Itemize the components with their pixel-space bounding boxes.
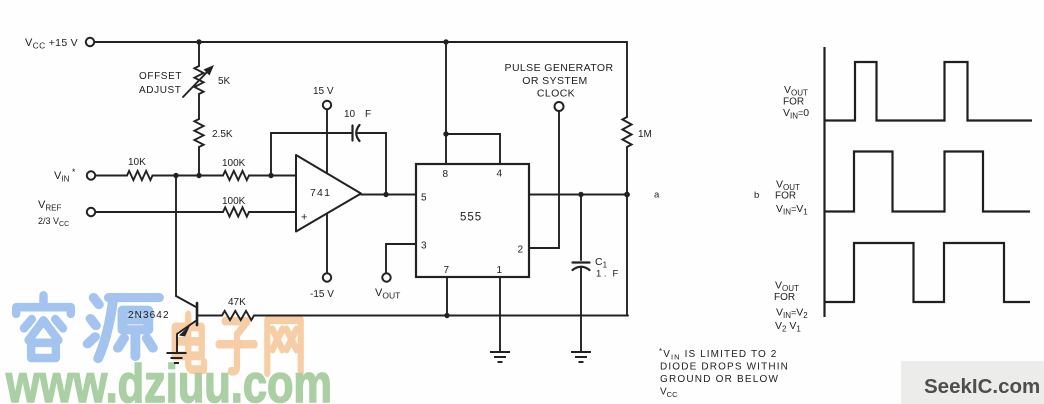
wire 10K to 100K [153, 175, 224, 177]
svg-text:741: 741 [310, 187, 331, 199]
wire node to C1 [580, 195, 582, 261]
terminal +15V [323, 101, 331, 109]
svg-text:7: 7 [444, 265, 450, 276]
node C1 tap [578, 192, 583, 197]
svg-text:10K: 10K [128, 157, 146, 168]
svg-text:1: 1 [497, 265, 503, 276]
waveform VOUT for VIN=V1 [825, 152, 1031, 212]
svg-text:1M: 1M [638, 129, 652, 140]
resistor 100K input [223, 171, 249, 180]
waveform VOUT for VIN=0 [825, 62, 1033, 121]
node feedback tap [268, 173, 273, 178]
node pin7 junction [444, 313, 449, 318]
svg-text:GROUND OR BELOW: GROUND OR BELOW [660, 374, 779, 385]
watermark char 5 [267, 320, 300, 373]
wire pin1 down [499, 277, 501, 351]
resistor 2.5K [194, 119, 203, 147]
svg-text:PULSE GENERATOR: PULSE GENERATOR [505, 62, 614, 74]
svg-text:47K: 47K [228, 297, 246, 308]
wire pin7 down [446, 277, 448, 316]
svg-text:F: F [365, 109, 371, 120]
resistor 47K [222, 311, 254, 320]
wire feedback right [358, 133, 386, 195]
terminal pulse generator [555, 102, 564, 111]
wire 555 right to node a [529, 194, 627, 196]
watermark char 3 [175, 315, 204, 370]
svg-text:100K: 100K [222, 158, 246, 169]
svg-text:5: 5 [421, 193, 427, 204]
waveform axis [823, 47, 825, 317]
wire pin3 to VOUT [386, 244, 416, 273]
svg-text:8: 8 [443, 169, 449, 180]
svg-text:15 V: 15 V [313, 86, 334, 97]
pot arrow [183, 69, 210, 97]
svg-text:OFFSET: OFFSET [139, 71, 182, 82]
svg-text:a: a [654, 190, 660, 201]
svg-text:FOR: FOR [774, 292, 795, 303]
wire 47K to output node column [254, 315, 628, 317]
pot arrowhead [204, 65, 215, 76]
svg-text:5K: 5K [218, 76, 231, 87]
svg-text:-15 V: -15 V [310, 289, 334, 300]
svg-text:ADJUST: ADJUST [139, 85, 182, 96]
wire pin4 up and over [446, 42, 500, 164]
wire base to 47K [197, 315, 222, 317]
wire feedback up [271, 133, 352, 176]
wire 2.5K to VIN node [198, 147, 200, 176]
wire pulse gen to pin 2 [529, 111, 559, 248]
node pin8/4 junction [443, 131, 448, 136]
wire 1M to node a [626, 147, 628, 195]
node junction top 5K [196, 39, 201, 44]
watermark char 4 [219, 321, 255, 371]
wire +15V to opamp [326, 110, 328, 173]
wire C1 to ground [580, 267, 582, 351]
watermark SeekIC [901, 361, 1044, 404]
svg-text:3: 3 [421, 241, 427, 252]
svg-text:2.5K: 2.5K [212, 129, 233, 140]
watermark char 1 [16, 295, 71, 358]
transistor emitter arrowhead [179, 325, 191, 337]
wire VIN node to transistor collector [175, 176, 177, 297]
IC U2 555 [416, 164, 529, 277]
node VIN/2.5K junction [196, 173, 201, 178]
wire opamp output to 555 pin 5 [361, 194, 416, 196]
svg-text:b: b [754, 190, 759, 201]
wire VREF terminal to 100K [96, 211, 224, 213]
svg-text:CLOCK: CLOCK [537, 88, 575, 100]
node a junction [624, 192, 630, 198]
svg-text:10: 10 [344, 109, 356, 120]
wire 5K to 2.5K [198, 94, 200, 119]
svg-text:+: + [301, 212, 307, 224]
svg-text:1 .: 1 . [596, 269, 607, 280]
svg-text:SeekIC.com: SeekIC.com [924, 375, 1040, 398]
wire pin8 up [445, 134, 447, 164]
transistor 2N3642 base bar [196, 303, 199, 325]
wire rail down to 1M [626, 42, 628, 117]
ground below pin1 [490, 352, 510, 362]
node VIN/collector junction [173, 173, 178, 178]
watermark char 2 [88, 298, 159, 359]
svg-text:2N3642: 2N3642 [128, 310, 170, 321]
terminal VREF [87, 208, 95, 216]
svg-text:555: 555 [460, 212, 482, 224]
svg-text:4: 4 [497, 169, 503, 180]
svg-text:OR SYSTEM: OR SYSTEM [522, 75, 587, 87]
wire 100K to opamp inverting input [249, 175, 296, 177]
svg-text:2: 2 [518, 245, 524, 256]
capacitor C1 plates [573, 261, 590, 263]
svg-text:F: F [613, 269, 619, 280]
wire VCC rail [95, 41, 628, 43]
node opamp output [383, 192, 388, 197]
wire 100K to opamp noninverting input [249, 211, 296, 213]
resistor 100K ref [223, 207, 249, 216]
node junction top 555 supply [443, 39, 448, 44]
capacitor 10uF plates [351, 126, 353, 141]
wire VIN terminal to 10K [96, 175, 128, 177]
resistor 1M [622, 117, 631, 147]
terminal VCC [86, 38, 94, 46]
svg-text:DIODE DROPS WITHIN: DIODE DROPS WITHIN [660, 362, 789, 373]
op-amp U1 741 [296, 155, 361, 232]
transistor 2N3642 emitter lead [177, 320, 197, 352]
ground below transistor [167, 353, 187, 363]
svg-text:FOR: FOR [783, 97, 804, 108]
wire node a down to base wire [626, 195, 628, 316]
waveform VOUT for VIN=V2 [825, 243, 1031, 302]
svg-text:100K: 100K [222, 196, 246, 207]
terminal VOUT [382, 273, 390, 281]
terminal VIN [87, 171, 95, 179]
wire opamp to -15V [326, 214, 328, 273]
svg-text:www.dziuu.com: www.dziuu.com [5, 354, 332, 404]
transistor 2N3642 collector lead [176, 296, 196, 307]
ground below C1 [571, 352, 591, 362]
svg-text:FOR: FOR [775, 191, 796, 202]
resistor 10K [127, 171, 153, 180]
resistor 5K (offset adjust pot) [194, 66, 203, 94]
wire VCC to 5K [198, 42, 200, 66]
terminal -15V [323, 273, 331, 281]
